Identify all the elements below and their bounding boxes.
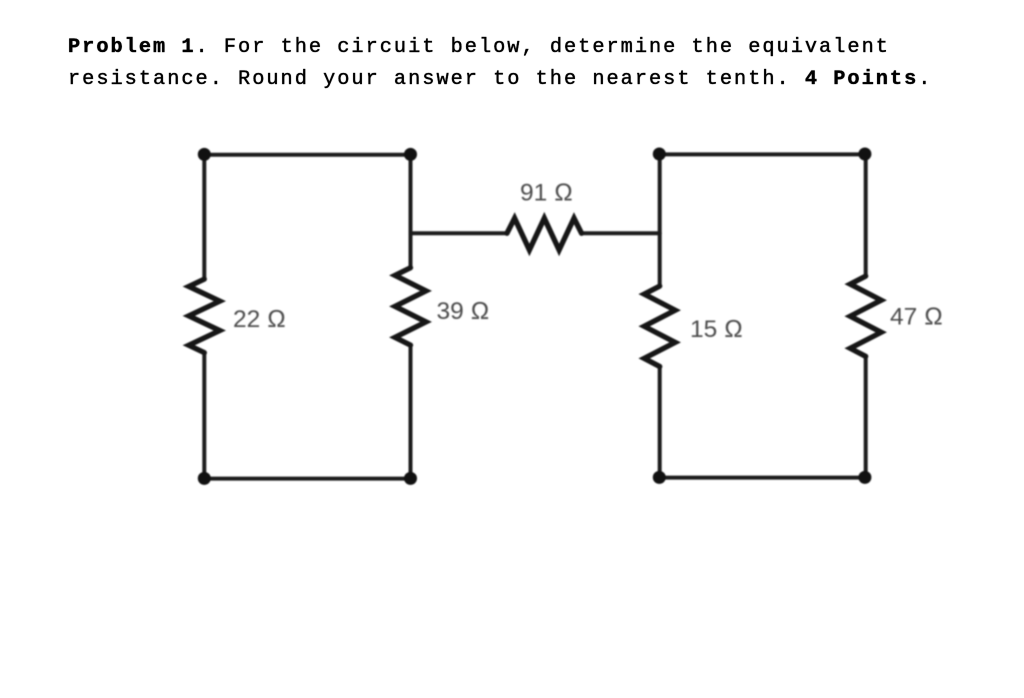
wire left loop right upper: [409, 155, 413, 268]
node dot right loop top-left: [653, 148, 666, 161]
svg-text:91 Ω: 91 Ω: [520, 180, 573, 207]
wire right loop bottom: [660, 476, 866, 480]
resistor R1 22ohm zigzag: [189, 279, 220, 353]
wire right loop left lower: [658, 367, 662, 478]
problem statement text: [68, 32, 932, 96]
svg-text:47 Ω: 47 Ω: [890, 304, 943, 331]
wire left loop bottom: [204, 477, 410, 481]
wire left loop left lower: [202, 353, 206, 479]
wire middle left segment: [411, 231, 508, 235]
wire right loop right upper: [864, 154, 868, 276]
svg-text:15 Ω: 15 Ω: [690, 316, 743, 343]
node dot left loop bottom-right: [404, 472, 417, 485]
node dot right loop bottom-right: [858, 471, 871, 484]
node dot left loop top-right: [404, 148, 417, 161]
wire middle right segment: [582, 231, 660, 235]
svg-text:39 Ω: 39 Ω: [437, 298, 490, 325]
svg-text:22 Ω: 22 Ω: [233, 306, 286, 333]
node dot left loop top-left: [198, 148, 211, 161]
node dot left loop bottom-left: [198, 472, 211, 485]
wire left loop right lower: [409, 345, 413, 479]
wire right loop right lower: [864, 356, 868, 477]
node dot right loop bottom-left: [653, 471, 666, 484]
resistor R3 91ohm zigzag: [507, 218, 582, 250]
node dot right loop top-right: [858, 148, 871, 161]
wire left loop top: [204, 153, 410, 157]
resistor R5 47ohm zigzag: [850, 276, 881, 356]
wire right loop top: [660, 152, 866, 156]
wire right loop left upper: [658, 154, 662, 286]
resistor R4 15ohm zigzag: [644, 286, 675, 366]
wire left loop left upper: [202, 155, 206, 280]
resistor R2 39ohm zigzag: [395, 268, 426, 345]
